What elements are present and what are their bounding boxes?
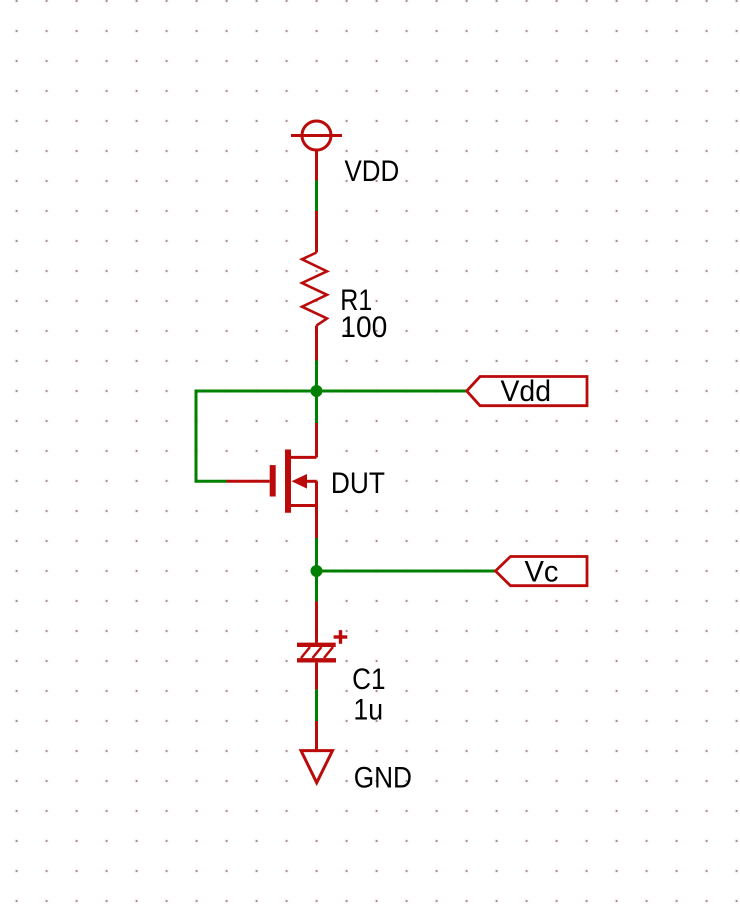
svg-text:GND: GND [354, 761, 412, 794]
junction node at Vc [311, 565, 323, 577]
wire junction 2 down to C1 [315, 571, 318, 601]
svg-text:VDD: VDD [345, 155, 400, 188]
wire DUT source to junction 2 [315, 538, 318, 571]
wire junction left [196, 391, 317, 481]
svg-text:1u: 1u [353, 693, 383, 726]
transistor DUT [227, 423, 317, 538]
hierarchical label Vdd [467, 375, 587, 408]
resistor R1 [302, 211, 327, 361]
power symbol VDD [291, 121, 342, 181]
wire junction to Vdd label [317, 390, 467, 393]
svg-text:DUT: DUT [331, 467, 385, 500]
wire junction 2 to Vc label [317, 570, 496, 573]
junction node at R1 bottom [311, 385, 323, 397]
hierarchical label Vc [496, 555, 588, 588]
svg-text:Vdd: Vdd [501, 375, 552, 408]
wire C1 to GND [315, 689, 318, 721]
svg-text:C1: C1 [352, 663, 385, 696]
wire junction down to DUT drain [315, 391, 318, 423]
wire VDD to R1 [315, 181, 318, 212]
svg-text:Vc: Vc [525, 555, 559, 588]
capacitor C1 [297, 601, 347, 689]
wire R1 to junction [315, 361, 318, 392]
svg-text:100: 100 [340, 311, 387, 344]
ground symbol [301, 721, 333, 783]
